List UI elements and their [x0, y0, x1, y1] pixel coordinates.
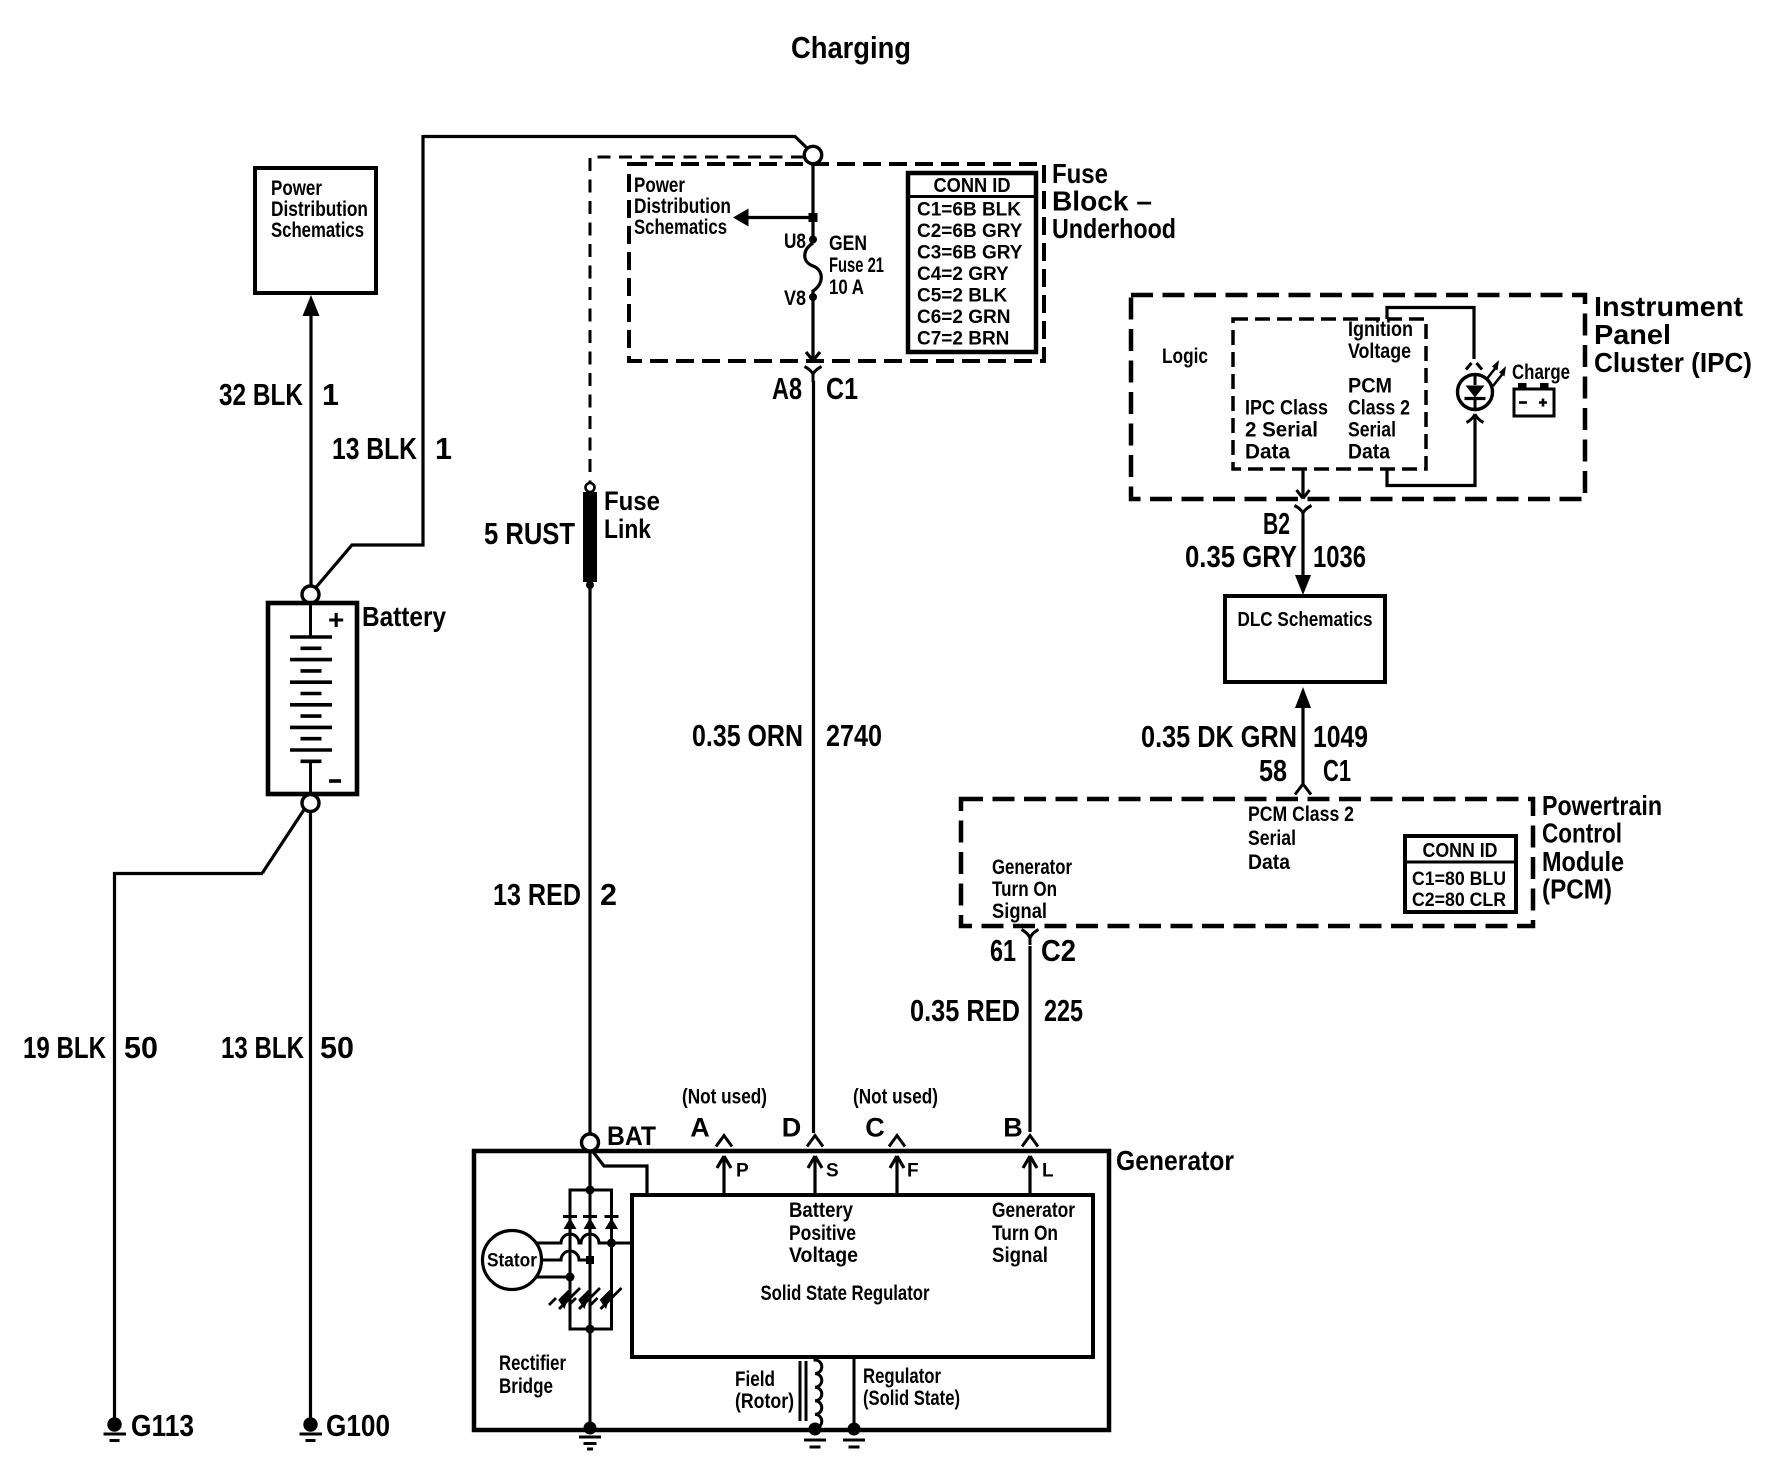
svg-text:+: + — [328, 604, 344, 635]
svg-text:(Solid State): (Solid State) — [863, 1387, 960, 1410]
svg-text:Module: Module — [1542, 846, 1624, 877]
svg-text:Turn On: Turn On — [992, 1222, 1058, 1245]
svg-text:C5=2 BLK: C5=2 BLK — [917, 286, 1008, 307]
svg-text:1: 1 — [322, 378, 339, 412]
svg-text:Ignition: Ignition — [1348, 318, 1413, 341]
svg-text:Bridge: Bridge — [499, 1375, 553, 1398]
svg-text:CONN ID: CONN ID — [934, 175, 1011, 197]
svg-text:Serial: Serial — [1248, 827, 1296, 850]
svg-text:C7=2 BRN: C7=2 BRN — [917, 329, 1009, 350]
svg-text:(Not used): (Not used) — [682, 1086, 767, 1109]
svg-text:Power: Power — [634, 174, 685, 197]
svg-text:(PCM): (PCM) — [1542, 874, 1612, 905]
svg-text:F: F — [907, 1161, 919, 1182]
svg-text:B: B — [1003, 1113, 1023, 1143]
svg-text:Logic: Logic — [1162, 345, 1208, 368]
svg-text:Generator: Generator — [1116, 1145, 1234, 1176]
svg-text:Underhood: Underhood — [1052, 213, 1176, 244]
svg-text:Cluster (IPC): Cluster (IPC) — [1594, 347, 1752, 378]
svg-text:Schematics: Schematics — [634, 216, 727, 239]
svg-text:S: S — [826, 1161, 839, 1182]
svg-text:Battery: Battery — [789, 1199, 853, 1222]
svg-text:IPC Class: IPC Class — [1245, 397, 1328, 420]
svg-text:C1=6B BLK: C1=6B BLK — [917, 200, 1021, 221]
svg-text:Class 2: Class 2 — [1348, 397, 1410, 420]
svg-text:C3=6B GRY: C3=6B GRY — [917, 243, 1023, 264]
svg-text:P: P — [736, 1161, 749, 1182]
svg-text:C: C — [865, 1113, 885, 1143]
svg-text:C4=2 GRY: C4=2 GRY — [917, 264, 1009, 285]
svg-text:Block –: Block – — [1052, 186, 1152, 217]
svg-text:19 BLK: 19 BLK — [23, 1031, 106, 1065]
svg-text:Stator: Stator — [487, 1251, 538, 1272]
svg-text:CONN ID: CONN ID — [1423, 840, 1498, 862]
svg-text:13 BLK: 13 BLK — [332, 432, 417, 466]
svg-text:Instrument: Instrument — [1594, 291, 1743, 322]
svg-text:C1: C1 — [1323, 754, 1351, 788]
svg-text:Charge: Charge — [1512, 361, 1570, 384]
svg-text:Data: Data — [1348, 441, 1390, 464]
svg-text:10 A: 10 A — [829, 276, 864, 299]
svg-text:C2: C2 — [1041, 934, 1076, 968]
svg-text:L: L — [1042, 1161, 1054, 1182]
svg-text:0.35 RED: 0.35 RED — [910, 994, 1020, 1028]
svg-text:13 RED: 13 RED — [493, 878, 581, 912]
svg-text:0.35 ORN: 0.35 ORN — [692, 719, 803, 753]
svg-text:Distribution: Distribution — [634, 195, 731, 218]
svg-text:1: 1 — [435, 432, 452, 466]
svg-text:61: 61 — [990, 934, 1016, 968]
svg-text:Fuse 21: Fuse 21 — [829, 254, 884, 277]
svg-text:Positive: Positive — [789, 1222, 856, 1245]
svg-text:Field: Field — [735, 1368, 775, 1391]
svg-text:Generator: Generator — [992, 1199, 1075, 1222]
svg-text:PCM Class 2: PCM Class 2 — [1248, 803, 1354, 826]
svg-text:1049: 1049 — [1313, 720, 1368, 754]
svg-text:C2=80 CLR: C2=80 CLR — [1412, 890, 1506, 911]
svg-text:2 Serial: 2 Serial — [1245, 419, 1318, 442]
svg-text:C1: C1 — [826, 372, 858, 406]
svg-text:Generator: Generator — [992, 856, 1072, 879]
svg-text:13 BLK: 13 BLK — [221, 1031, 304, 1065]
svg-text:Rectifier: Rectifier — [499, 1352, 566, 1375]
svg-text:D: D — [782, 1113, 802, 1143]
svg-text:DLC Schematics: DLC Schematics — [1238, 609, 1373, 631]
svg-text:58: 58 — [1259, 754, 1287, 788]
svg-text:50: 50 — [320, 1031, 354, 1065]
svg-text:U8: U8 — [784, 230, 806, 253]
svg-text:A8: A8 — [772, 372, 802, 406]
svg-text:Charging: Charging — [791, 30, 911, 65]
svg-text:BAT: BAT — [607, 1121, 656, 1151]
svg-text:C2=6B GRY: C2=6B GRY — [917, 221, 1023, 242]
svg-text:Control: Control — [1542, 818, 1622, 849]
svg-text:1036: 1036 — [1313, 540, 1366, 574]
svg-text:(Not used): (Not used) — [853, 1086, 938, 1109]
svg-text:GEN: GEN — [829, 232, 867, 255]
svg-text:2740: 2740 — [826, 719, 882, 753]
svg-text:PCM: PCM — [1348, 375, 1392, 398]
svg-text:Schematics: Schematics — [271, 219, 364, 242]
svg-text:Serial: Serial — [1348, 419, 1396, 442]
svg-text:Data: Data — [1248, 851, 1290, 874]
svg-text:Signal: Signal — [992, 1244, 1048, 1267]
svg-text:(Rotor): (Rotor) — [735, 1390, 794, 1413]
svg-text:Distribution: Distribution — [271, 198, 368, 221]
svg-text:C1=80 BLU: C1=80 BLU — [1412, 869, 1506, 890]
svg-text:Solid State Regulator: Solid State Regulator — [761, 1282, 930, 1305]
svg-text:Link: Link — [604, 514, 652, 544]
svg-text:Battery: Battery — [362, 601, 446, 632]
svg-text:225: 225 — [1044, 994, 1083, 1028]
svg-text:Regulator: Regulator — [863, 1365, 941, 1388]
svg-text:Fuse: Fuse — [604, 486, 660, 516]
svg-text:5 RUST: 5 RUST — [484, 517, 575, 551]
svg-text:Data: Data — [1245, 441, 1290, 464]
svg-text:2: 2 — [600, 878, 617, 912]
svg-text:Powertrain: Powertrain — [1542, 790, 1662, 821]
svg-text:B2: B2 — [1263, 507, 1290, 541]
svg-text:Power: Power — [271, 177, 322, 200]
svg-text:Signal: Signal — [992, 900, 1047, 923]
svg-text:A: A — [690, 1113, 710, 1143]
svg-text:V8: V8 — [784, 287, 806, 310]
svg-text:32 BLK: 32 BLK — [219, 378, 303, 412]
svg-text:G113: G113 — [131, 1409, 194, 1443]
svg-text:Panel: Panel — [1594, 319, 1671, 350]
svg-text:Fuse: Fuse — [1052, 158, 1108, 189]
svg-text:Voltage: Voltage — [789, 1244, 858, 1267]
svg-text:G100: G100 — [326, 1409, 390, 1443]
svg-text:Turn On: Turn On — [992, 878, 1057, 901]
svg-text:50: 50 — [124, 1031, 158, 1065]
svg-text:C6=2 GRN: C6=2 GRN — [917, 307, 1010, 328]
svg-text:Voltage: Voltage — [1348, 340, 1411, 363]
svg-text:0.35 DK GRN: 0.35 DK GRN — [1141, 720, 1297, 754]
svg-text:0.35 GRY: 0.35 GRY — [1185, 540, 1297, 574]
